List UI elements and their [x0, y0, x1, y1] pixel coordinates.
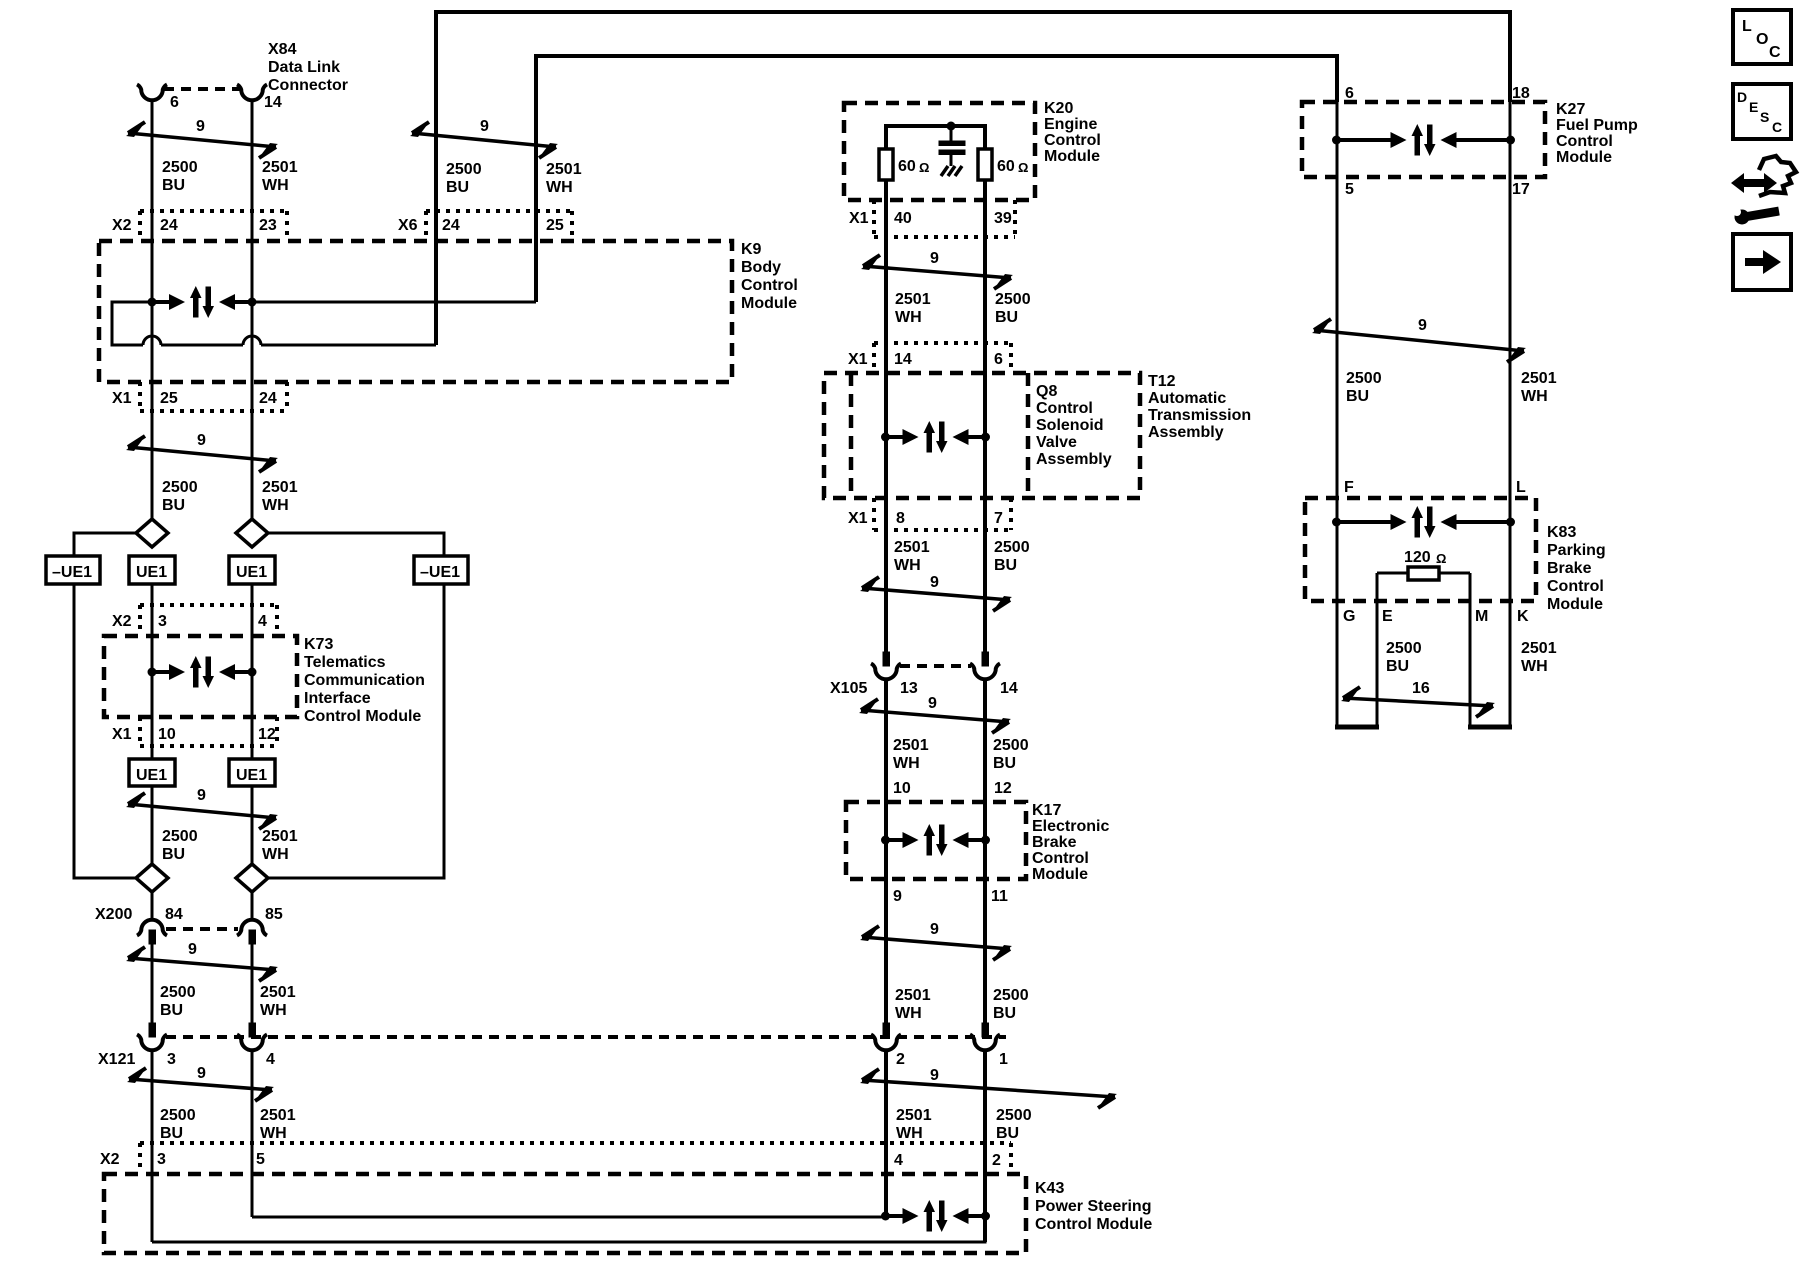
connector X121 cavity 4	[249, 1023, 256, 1037]
svg-text:Assembly: Assembly	[1148, 424, 1224, 441]
svg-text:Ω: Ω	[919, 160, 929, 175]
svg-text:6: 6	[994, 351, 1003, 368]
resistor 120 ohm inside K83	[1408, 567, 1439, 580]
svg-text:2501: 2501	[896, 1107, 932, 1124]
connector X84 cavity pin 14	[237, 85, 267, 101]
svg-text:5: 5	[256, 1151, 265, 1168]
wire 2501 WH from X84 pin 14 to splice diamond	[251, 99, 254, 519]
connector X2 of K43 band	[140, 1141, 1011, 1145]
svg-text:Communication: Communication	[304, 672, 425, 689]
svg-text:WH: WH	[1521, 658, 1548, 675]
svg-text:WH: WH	[262, 846, 289, 863]
svg-text:Ω: Ω	[1018, 160, 1028, 175]
svg-text:Control: Control	[1556, 133, 1613, 150]
svg-text:18: 18	[1512, 85, 1530, 102]
svg-text:24: 24	[442, 217, 460, 234]
connector X2 of K73 band	[140, 603, 277, 607]
harness slash 16 below K83	[1343, 698, 1493, 706]
svg-text:10: 10	[158, 726, 176, 743]
module K17 dashed box	[846, 802, 1026, 879]
svg-text:D: D	[1737, 89, 1747, 105]
connector X105 cavity 14	[982, 652, 989, 666]
connector X84 cavity pin 6	[137, 85, 167, 101]
svg-text:X121: X121	[98, 1051, 135, 1068]
svg-text:K: K	[1517, 608, 1529, 625]
net label UE1 on 2500 BU	[129, 556, 175, 584]
svg-text:25: 25	[160, 390, 178, 407]
svg-text:K83: K83	[1547, 524, 1576, 541]
connector X1 of T12 lower band	[874, 528, 1011, 532]
svg-text:9: 9	[197, 1065, 206, 1082]
svg-text:K73: K73	[304, 636, 333, 653]
connector X1 of K9 band	[140, 409, 287, 413]
svg-text:9: 9	[188, 941, 197, 958]
svg-text:UE1: UE1	[236, 767, 267, 784]
harness slash 9 below K20	[863, 266, 1011, 278]
svg-text:6: 6	[170, 94, 179, 111]
svg-text:Control Module: Control Module	[1035, 1216, 1152, 1233]
svg-text:9: 9	[928, 695, 937, 712]
wire K9 internal left branch loop	[112, 302, 170, 345]
svg-text:K43: K43	[1035, 1180, 1064, 1197]
svg-text:25: 25	[546, 217, 564, 234]
wire 2500 BU through K73	[151, 584, 154, 759]
svg-text:2500: 2500	[162, 479, 198, 496]
svg-text:17: 17	[1512, 181, 1530, 198]
wire 2500 BU X105 to K17	[983, 678, 987, 1023]
wire 2501 WH from UE1 to diamond row 2	[251, 786, 254, 864]
svg-text:K27: K27	[1556, 101, 1585, 118]
svg-text:BU: BU	[162, 497, 185, 514]
connector X105 cavity 13	[883, 652, 890, 666]
svg-text:X1: X1	[112, 726, 132, 743]
svg-text:WH: WH	[896, 1125, 923, 1142]
svg-text:14: 14	[264, 94, 282, 111]
svg-text:Q8: Q8	[1036, 383, 1057, 400]
svg-text:40: 40	[894, 210, 912, 227]
svg-text:2500: 2500	[994, 539, 1030, 556]
svg-text:BU: BU	[994, 557, 1017, 574]
resistor 60 ohm left inside K20	[879, 149, 893, 180]
svg-text:Module: Module	[1547, 596, 1603, 613]
connector X84 dashed line	[164, 87, 240, 91]
module K83 dashed box	[1305, 498, 1536, 601]
svg-text:Assembly: Assembly	[1036, 451, 1112, 468]
svg-text:K9: K9	[741, 241, 762, 258]
svg-text:9: 9	[930, 921, 939, 938]
svg-text:2501: 2501	[262, 159, 298, 176]
svg-text:WH: WH	[1521, 388, 1548, 405]
svg-text:4: 4	[894, 1152, 903, 1169]
svg-text:Module: Module	[1032, 866, 1088, 883]
wire 2500 BU X121 to K43	[151, 1049, 154, 1242]
icon wrench	[1744, 211, 1779, 217]
hop over 2501 WH wire	[243, 336, 261, 345]
net label UE1 on 2501 WH	[229, 556, 275, 584]
svg-text:–UE1: –UE1	[52, 564, 92, 581]
svg-text:39: 39	[994, 210, 1012, 227]
svg-text:Solenoid: Solenoid	[1036, 417, 1104, 434]
svg-text:3: 3	[158, 613, 167, 630]
svg-text:11: 11	[991, 888, 1008, 905]
module K73 dashed box	[104, 636, 297, 717]
svg-text:Module: Module	[1044, 148, 1100, 165]
svg-text:BU: BU	[1386, 658, 1409, 675]
svg-text:F: F	[1344, 479, 1354, 496]
wire 2501 WH from K20 resistor to X105	[884, 180, 888, 652]
svg-text:WH: WH	[260, 1125, 287, 1142]
svg-text:X6: X6	[398, 217, 418, 234]
svg-text:9: 9	[1418, 317, 1427, 334]
svg-text:Telematics: Telematics	[304, 654, 386, 671]
connector X200 cavity 85	[237, 920, 267, 936]
wire K20 internal bus bar	[886, 126, 985, 149]
svg-text:UE1: UE1	[136, 564, 167, 581]
wire -UE1 right vertical	[268, 584, 444, 878]
svg-text:Valve: Valve	[1036, 434, 1077, 451]
svg-text:7: 7	[994, 510, 1003, 527]
svg-text:BU: BU	[160, 1002, 183, 1019]
svg-text:2500: 2500	[160, 1107, 196, 1124]
harness slash 9 below middle inline connector	[862, 1080, 1115, 1097]
connector X2 of K9 band	[140, 209, 287, 213]
svg-text:14: 14	[1000, 680, 1018, 697]
svg-text:K17: K17	[1032, 802, 1061, 819]
svg-text:BU: BU	[446, 179, 469, 196]
wire diamond to left -UE1	[74, 533, 136, 556]
icon double arrow with connector	[1731, 173, 1777, 193]
svg-text:X84: X84	[268, 41, 297, 58]
wire 2500 BU from K20 resistor to X105	[983, 180, 987, 652]
wire K9 internal segment between hops	[161, 344, 243, 347]
junction node diamond on 2501 WH	[236, 519, 268, 547]
svg-text:Control: Control	[1032, 850, 1089, 867]
bidirectional comm symbol inside K73	[148, 656, 257, 688]
svg-text:WH: WH	[895, 309, 922, 326]
harness slash 9 below X200	[128, 958, 276, 970]
connector X200 dashed line	[166, 927, 238, 931]
svg-text:Control: Control	[741, 277, 798, 294]
svg-text:L: L	[1742, 18, 1752, 35]
svg-text:X2: X2	[112, 217, 132, 234]
hop over 2500 BU wire	[143, 336, 161, 345]
icon forward arrow box	[1733, 234, 1791, 290]
wire 2500 BU top link from BCM to K27 pin 18	[436, 12, 1510, 345]
svg-text:–UE1: –UE1	[420, 564, 460, 581]
svg-text:10: 10	[893, 780, 911, 797]
wire K9 internal right branch to X6 pin 25	[234, 301, 536, 304]
svg-text:Parking: Parking	[1547, 542, 1606, 559]
svg-text:2500: 2500	[1346, 370, 1382, 387]
svg-text:L: L	[1516, 479, 1526, 496]
svg-text:2501: 2501	[895, 291, 931, 308]
svg-text:12: 12	[258, 726, 276, 743]
net label UE1 lower on 2501 WH	[229, 759, 275, 786]
svg-text:2501: 2501	[893, 737, 929, 754]
svg-text:X1: X1	[849, 210, 869, 227]
svg-text:14: 14	[894, 351, 912, 368]
svg-text:2501: 2501	[262, 479, 298, 496]
svg-text:Electronic: Electronic	[1032, 818, 1109, 835]
ground chassis symbol inside K20	[941, 166, 962, 176]
svg-text:2501: 2501	[1521, 370, 1557, 387]
svg-text:13: 13	[900, 680, 918, 697]
svg-text:X2: X2	[100, 1151, 120, 1168]
bidirectional comm symbol inside K17	[881, 824, 990, 856]
svg-text:BU: BU	[162, 846, 185, 863]
svg-text:2500: 2500	[162, 828, 198, 845]
wire 2501 WH upper link from BCM to K27 pin 6	[536, 56, 1337, 302]
svg-text:Module: Module	[1556, 149, 1612, 166]
svg-text:BU: BU	[993, 1005, 1016, 1022]
resistor 60 ohm right inside K20	[978, 149, 992, 180]
connector cavity 2 on X121 line	[883, 1023, 890, 1037]
harness slash 9 below K17	[862, 937, 1010, 949]
wire -UE1 left vertical	[74, 584, 136, 878]
bidirectional comm symbol inside Q8	[881, 421, 990, 453]
wire jumper loop M to K	[1468, 725, 1512, 730]
wire 2500 BU from K27 pin 5 to K83 pin F	[1336, 102, 1339, 727]
svg-text:WH: WH	[894, 557, 921, 574]
svg-text:9: 9	[196, 118, 205, 135]
svg-text:Interface: Interface	[304, 690, 371, 707]
svg-text:Control: Control	[1044, 132, 1101, 149]
net label UE1 lower on 2500 BU	[129, 759, 175, 786]
svg-text:BU: BU	[996, 1125, 1019, 1142]
connector X6 of K9 band	[426, 209, 572, 213]
wire 2500 BU from X84 pin 6 to splice diamond	[151, 99, 154, 519]
svg-text:2501: 2501	[895, 987, 931, 1004]
harness slash 9 below X84	[128, 133, 276, 147]
svg-text:X200: X200	[95, 906, 132, 923]
svg-text:3: 3	[157, 1151, 166, 1168]
svg-text:2: 2	[896, 1051, 905, 1068]
junction node diamond 2 on 2500 BU	[136, 864, 168, 892]
svg-text:Connector: Connector	[268, 77, 348, 94]
svg-text:9: 9	[930, 1067, 939, 1084]
svg-text:2: 2	[992, 1152, 1001, 1169]
wire 2500 BU X200 to X121	[151, 944, 154, 1023]
svg-text:Control: Control	[1036, 400, 1093, 417]
wire 2501 WH to K43 pin 4	[884, 1049, 888, 1216]
svg-text:9: 9	[893, 888, 902, 905]
module K9 dashed box	[99, 241, 732, 382]
svg-text:WH: WH	[260, 1002, 287, 1019]
wire 2501 WH through K73	[251, 584, 254, 759]
svg-text:2500: 2500	[993, 987, 1029, 1004]
module K20 dashed box	[844, 103, 1035, 200]
svg-text:Engine: Engine	[1044, 116, 1097, 133]
wire K83 E leg	[1376, 573, 1379, 727]
svg-text:4: 4	[266, 1051, 275, 1068]
junction node diamond on 2500 BU	[136, 519, 168, 547]
wire 2501 WH X121 to K43	[251, 1049, 254, 1217]
svg-text:2500: 2500	[162, 159, 198, 176]
svg-text:O: O	[1756, 31, 1768, 48]
svg-text:9: 9	[930, 574, 939, 591]
svg-text:2500: 2500	[995, 291, 1031, 308]
svg-text:9: 9	[197, 432, 206, 449]
svg-text:Data Link: Data Link	[268, 59, 340, 76]
svg-text:60: 60	[898, 158, 916, 175]
bidirectional comm symbol inside K27	[1332, 124, 1515, 156]
wire K9 internal branch to X6 pin 24	[261, 344, 436, 347]
harness slash 9 above X6	[412, 133, 556, 147]
svg-text:X1: X1	[112, 390, 132, 407]
svg-text:Module: Module	[741, 295, 797, 312]
svg-text:9: 9	[480, 118, 489, 135]
wire jumper loop G to E	[1335, 725, 1379, 730]
icon DESC box	[1733, 84, 1791, 139]
svg-text:Power Steering: Power Steering	[1035, 1198, 1151, 1215]
svg-text:BU: BU	[162, 177, 185, 194]
svg-text:2500: 2500	[996, 1107, 1032, 1124]
svg-text:E: E	[1749, 99, 1758, 115]
svg-text:8: 8	[896, 510, 905, 527]
svg-text:Ω: Ω	[1436, 551, 1446, 566]
svg-text:2500: 2500	[446, 161, 482, 178]
svg-text:2501: 2501	[262, 828, 298, 845]
wire 2500 BU from UE1 to diamond row 2	[151, 786, 154, 864]
svg-text:Body: Body	[741, 259, 781, 276]
connector X105 dashed line	[900, 664, 971, 668]
module K43 dashed box	[104, 1174, 1026, 1253]
svg-text:X105: X105	[830, 680, 867, 697]
wire 2500 BU to K43 pin 2	[983, 1049, 987, 1242]
svg-text:120: 120	[1404, 549, 1431, 566]
svg-text:6: 6	[1345, 85, 1354, 102]
icon LOC box	[1733, 10, 1791, 64]
svg-text:Automatic: Automatic	[1148, 390, 1226, 407]
wire diamond to right -UE1	[268, 533, 444, 556]
svg-text:2501: 2501	[260, 984, 296, 1001]
harness slash 9 right column	[1314, 330, 1524, 351]
svg-text:K20: K20	[1044, 100, 1073, 117]
net label -UE1 left box	[46, 556, 100, 584]
svg-text:84: 84	[165, 906, 183, 923]
harness slash 9 below X121	[129, 1079, 272, 1090]
svg-text:BU: BU	[1346, 388, 1369, 405]
svg-text:2501: 2501	[546, 161, 582, 178]
svg-text:2500: 2500	[160, 984, 196, 1001]
junction dot at capacitor tap	[947, 122, 956, 131]
svg-text:2501: 2501	[894, 539, 930, 556]
harness slash 9 below K9	[128, 447, 276, 461]
svg-text:2500: 2500	[1386, 640, 1422, 657]
svg-text:X2: X2	[112, 613, 132, 630]
connector X1 of K73 band	[140, 744, 277, 748]
svg-text:M: M	[1475, 608, 1488, 625]
svg-text:BU: BU	[993, 755, 1016, 772]
svg-text:24: 24	[160, 217, 178, 234]
svg-text:1: 1	[999, 1051, 1008, 1068]
wire K83 M leg	[1469, 573, 1472, 727]
harness slash 9 below X105	[861, 710, 1009, 722]
svg-text:85: 85	[265, 906, 283, 923]
harness slash 9 below UE1	[128, 804, 276, 818]
capacitor C inside K20	[950, 126, 953, 141]
svg-text:C: C	[1772, 119, 1782, 135]
harness slash 9 below T12	[862, 588, 1010, 600]
connector X121 dashed line	[166, 1035, 1006, 1039]
connector X121 cavity 3	[149, 1023, 156, 1037]
wire 2501 WH diamond2 to X200	[251, 892, 254, 920]
svg-text:60: 60	[997, 158, 1015, 175]
junction node diamond 2 on 2501 WH	[236, 864, 268, 892]
wire 2501 WH X105 to K17	[884, 678, 888, 1023]
svg-text:WH: WH	[262, 497, 289, 514]
svg-text:2500: 2500	[993, 737, 1029, 754]
svg-text:G: G	[1343, 608, 1355, 625]
bidirectional comm symbol inside K83	[1332, 506, 1515, 538]
svg-text:WH: WH	[895, 1005, 922, 1022]
assembly T12 dashed box	[824, 373, 1140, 498]
wire 2501 WH from K27 pin 17 to K83 pin L	[1509, 102, 1512, 727]
connector X1 of T12 upper band	[874, 341, 1011, 345]
net label -UE1 right box	[414, 556, 468, 584]
svg-text:4: 4	[258, 613, 267, 630]
svg-text:BU: BU	[160, 1125, 183, 1142]
wire K83 internal resistor link	[1377, 572, 1470, 575]
svg-text:Control Module: Control Module	[304, 708, 421, 725]
svg-text:Brake: Brake	[1032, 834, 1077, 851]
svg-text:23: 23	[259, 217, 277, 234]
module Q8 dashed box sides	[849, 373, 854, 498]
svg-text:E: E	[1382, 608, 1393, 625]
svg-text:2501: 2501	[1521, 640, 1557, 657]
svg-text:WH: WH	[546, 179, 573, 196]
svg-text:Transmission: Transmission	[1148, 407, 1251, 424]
svg-text:X1: X1	[848, 351, 868, 368]
svg-text:2501: 2501	[260, 1107, 296, 1124]
svg-text:T12: T12	[1148, 373, 1176, 390]
bidirectional comm symbol inside K43	[881, 1200, 990, 1232]
module K27 dashed box	[1302, 102, 1545, 177]
svg-text:12: 12	[994, 780, 1012, 797]
svg-text:UE1: UE1	[136, 767, 167, 784]
bidirectional comm symbol inside K9	[148, 286, 257, 318]
wire 2501 WH X200 to X121	[251, 944, 254, 1023]
connector cavity 1 on X121 line	[982, 1023, 989, 1037]
wire 2500 BU into K43 comm node	[152, 1216, 985, 1242]
wire 2500 BU diamond2 to X200	[151, 892, 154, 920]
svg-text:Control: Control	[1547, 578, 1604, 595]
connector X1 of K20 band	[874, 235, 1015, 239]
svg-text:9: 9	[930, 250, 939, 267]
svg-text:9: 9	[197, 787, 206, 804]
connector X200 cavity 84	[137, 920, 167, 936]
svg-text:Fuel Pump: Fuel Pump	[1556, 117, 1638, 134]
svg-text:5: 5	[1345, 181, 1354, 198]
svg-text:Brake: Brake	[1547, 560, 1592, 577]
wire 2501 WH into K43 comm node	[252, 1216, 886, 1219]
svg-text:3: 3	[167, 1051, 176, 1068]
svg-text:X1: X1	[848, 510, 868, 527]
svg-text:16: 16	[1412, 680, 1430, 697]
svg-text:WH: WH	[893, 755, 920, 772]
svg-text:BU: BU	[995, 309, 1018, 326]
svg-text:S: S	[1760, 109, 1769, 125]
svg-text:24: 24	[259, 390, 277, 407]
svg-text:UE1: UE1	[236, 564, 267, 581]
svg-text:C: C	[1769, 44, 1781, 61]
svg-text:WH: WH	[262, 177, 289, 194]
